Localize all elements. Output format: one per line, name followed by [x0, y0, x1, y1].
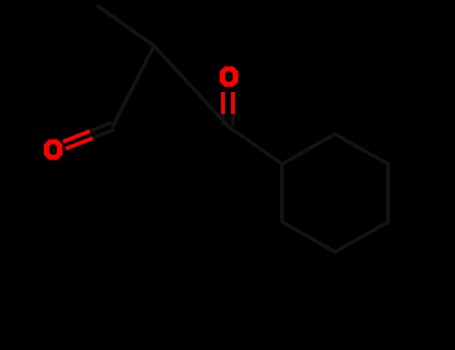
double bond C3=O2 right line: red half then dark half — [231, 92, 235, 114]
ring: cyclohexane — [282, 134, 388, 252]
wire: bond C3-ring — [229, 127, 282, 164]
oxygen O2 glyph (ketone) — [220, 66, 239, 86]
oxygen O1 glyph (aldehyde) — [44, 139, 63, 159]
wire: bond C1-C2 — [113, 46, 154, 126]
double bond C3=O2 left line: red half then dark half — [221, 92, 225, 114]
wire: methyl bond CH3-C2 — [98, 6, 154, 46]
wire: bond C2-C3 — [154, 46, 229, 127]
double bond C1=O1 lower line: red half then dark half — [66, 138, 93, 149]
double bond C1=O1 upper line: red half then dark half — [63, 131, 90, 142]
